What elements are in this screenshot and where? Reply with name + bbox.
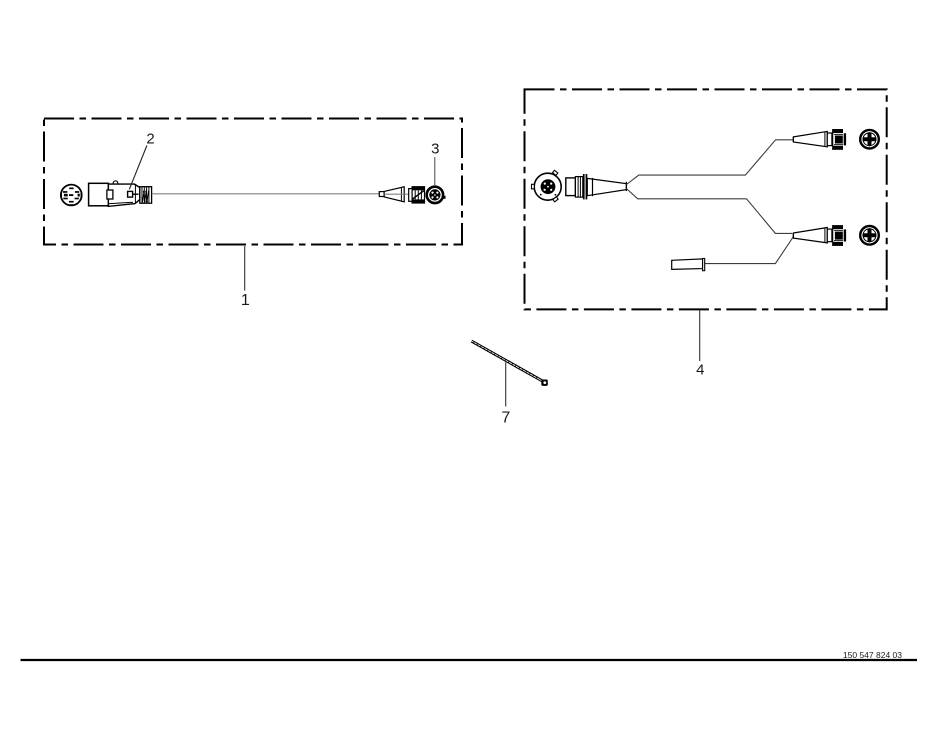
flange disc <box>583 174 587 199</box>
strain relief cone at right end of cable 1 <box>379 187 404 202</box>
lower branch boot cone <box>793 228 831 243</box>
svg-text:3: 3 <box>431 141 439 158</box>
connector plug face (DIN, item 1 left end) <box>60 185 82 206</box>
label 1 leader line <box>244 246 246 291</box>
circular connector item 3 <box>427 187 446 203</box>
upper branch connector (black) <box>832 129 846 150</box>
svg-text:7: 7 <box>501 410 510 427</box>
upper branch boot cone <box>793 131 831 146</box>
harness wires of assembly 4 <box>627 140 794 264</box>
svg-text:2: 2 <box>146 131 154 148</box>
wire stub through cone <box>384 193 409 195</box>
label 4 leader line <box>699 311 701 362</box>
label 3 leader line <box>434 157 436 185</box>
footer rule <box>21 659 918 661</box>
svg-text:4: 4 <box>696 362 704 379</box>
circular bayonet connector (item 4 left) <box>532 170 562 202</box>
assembly 1 boundary box (dash-dot) <box>44 119 462 245</box>
svg-text:1: 1 <box>241 292 250 309</box>
collar <box>575 177 582 198</box>
assembly 4 boundary box (dash-dot) <box>525 89 887 309</box>
upper screw <box>860 130 879 149</box>
cable tie item 7 <box>471 340 548 386</box>
wire of cable 1 <box>152 193 379 195</box>
knurled coupling nut (before item 3) <box>409 187 425 203</box>
connector 2 housing body <box>89 181 140 207</box>
backshell cylinder <box>566 178 576 196</box>
tapered boot cone <box>587 178 626 196</box>
label 2 leader line <box>129 146 147 190</box>
spare grommet cone <box>672 259 705 271</box>
lower branch connector (black) <box>832 225 846 246</box>
lower screw <box>860 226 879 245</box>
corrugated boot of connector 2 <box>140 187 152 204</box>
label 7 leader line <box>505 362 507 406</box>
svg-text:150 547 824 03: 150 547 824 03 <box>843 650 902 660</box>
